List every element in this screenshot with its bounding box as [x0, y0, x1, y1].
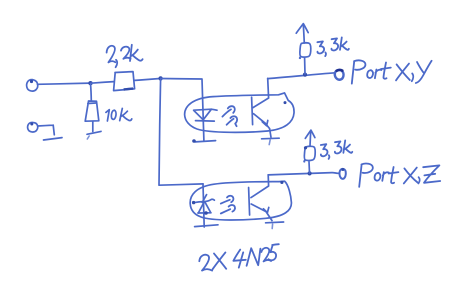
resistor R3 body [300, 43, 311, 58]
LED D2 anode wire [203, 184, 204, 227]
U1 pen dot [284, 101, 287, 104]
node B junction [158, 76, 162, 80]
optocoupler U1 body [185, 93, 294, 132]
wire Port X,Z line [268, 173, 339, 175]
node C junction [303, 73, 307, 77]
value label 2,2k [107, 45, 143, 67]
node D junction [308, 171, 312, 175]
phototransistor Q2 [249, 175, 272, 221]
wire R4 to node D [308, 162, 311, 173]
wire node A down to R2 [90, 84, 93, 102]
net label Port X,Z [359, 164, 440, 187]
wire node A to R1 [91, 82, 114, 84]
U2 pen dot [280, 181, 283, 184]
light arrows U2 [221, 196, 235, 214]
resistor R1 body [114, 72, 135, 91]
optocoupler U2 body [190, 181, 291, 220]
ground GND4 [262, 138, 280, 144]
input terminal J2 [28, 122, 38, 132]
wire node B down to LED2 [159, 79, 203, 186]
wire J1 to node A [38, 83, 91, 84]
wire R1 to node B [135, 79, 160, 81]
phototransistor Q1 [252, 78, 271, 137]
wire Port X,Y line [268, 73, 335, 79]
part label 2X 4N25 [199, 244, 278, 270]
value label 10k [106, 108, 132, 121]
wire J2 down-stub [38, 125, 55, 135]
LED D2 [192, 195, 214, 215]
ground GND3 [192, 139, 215, 143]
ground GND1 [87, 131, 101, 139]
wire node B to LED1 anode [161, 79, 204, 141]
LED D1 [194, 109, 217, 121]
R4 dark corner [304, 146, 307, 149]
wire R2 to ground [92, 121, 94, 131]
resistor R2 body [85, 101, 99, 121]
resistor R4 body [304, 146, 315, 161]
ground GND2 [44, 138, 63, 140]
output terminal Port X,Y [335, 70, 344, 80]
ground GND6 [266, 222, 284, 229]
Vcc arrow 2 [305, 130, 315, 146]
output terminal Port X,Z [339, 168, 345, 179]
ground GND5 [195, 225, 218, 227]
value label 3,3k (R4) [321, 140, 353, 159]
R1 dark mark [124, 87, 134, 90]
node A junction [88, 81, 92, 85]
input terminal J1 [27, 80, 38, 92]
light arrows U1 [222, 106, 237, 126]
Vcc arrow 1 [296, 24, 308, 43]
wire R3 to node C [304, 58, 306, 74]
value label 3,3k (R3) [317, 37, 349, 56]
net label Port X,Y [352, 60, 432, 83]
